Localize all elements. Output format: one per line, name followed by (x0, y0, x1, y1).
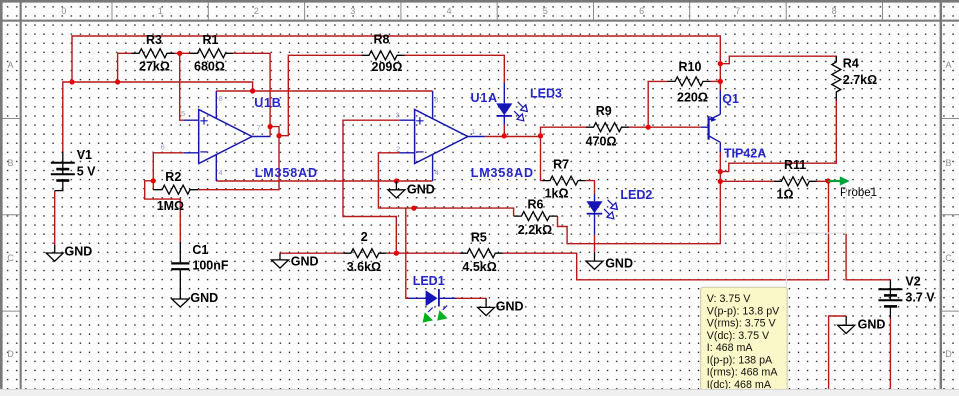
svg-text:I(p-p): 138 pA: I(p-p): 138 pA (707, 354, 773, 366)
svg-text:A: A (945, 60, 951, 70)
wire LED2 cathode to gnd (594, 234, 596, 252)
svg-text:6: 6 (161, 143, 165, 152)
svg-text:27kΩ: 27kΩ (139, 60, 170, 74)
svg-text:U1A: U1A (471, 91, 498, 105)
wire +5V top rail to Q1 emitter (72, 36, 720, 91)
svg-text:R1: R1 (203, 33, 219, 47)
svg-text:LED1: LED1 (413, 274, 445, 288)
svg-text:R10: R10 (679, 60, 702, 74)
svg-text:2: 2 (396, 145, 400, 154)
svg-text:8: 8 (434, 96, 438, 105)
svg-text:I(rms): 468 mA: I(rms): 468 mA (707, 367, 779, 379)
svg-text:GND: GND (605, 256, 633, 270)
svg-text:4: 4 (446, 6, 451, 16)
junction U1A output / R9 / R7 (538, 133, 543, 138)
junction +5V vertical / R10 (718, 79, 723, 84)
capacitor C1 100nF (171, 242, 189, 299)
wire U1A pin2 node (378, 153, 513, 216)
LED1 diode (409, 289, 456, 307)
transistor Q1 TIP42A (701, 90, 721, 152)
wire R4 bottom to collector node (720, 101, 836, 172)
svg-text:2: 2 (361, 230, 368, 244)
svg-text:B: B (7, 158, 13, 168)
wire R7 feed (541, 136, 543, 181)
wire collector node to R11 (720, 180, 774, 182)
wire R8 right to LED3 anode (405, 55, 505, 83)
svg-text:470Ω: 470Ω (586, 134, 617, 148)
wire R10 riser (648, 81, 667, 127)
wire LED1 anode drop (406, 208, 410, 298)
resistor R3 27kOhm body (132, 49, 175, 58)
resistor R6 2.2kOhm body (514, 212, 558, 221)
svg-text:GND: GND (291, 254, 319, 268)
svg-text:2: 2 (254, 6, 259, 16)
svg-text:R5: R5 (471, 231, 487, 245)
wire R6 staircase to Q1 collector node (558, 181, 721, 243)
resistor R9 470Ohm body (586, 123, 629, 132)
svg-text:R9: R9 (596, 104, 612, 118)
info-box leader line (786, 185, 846, 287)
wire 3.6k to R5 (386, 252, 460, 254)
svg-text:D: D (945, 349, 952, 359)
svg-text:3.6kΩ: 3.6kΩ (347, 260, 381, 274)
svg-text:4: 4 (219, 168, 223, 177)
svg-text:R6: R6 (528, 198, 544, 212)
svg-text:220Ω: 220Ω (677, 90, 708, 104)
svg-text:LM358AD: LM358AD (471, 166, 534, 180)
svg-text:4.5kΩ: 4.5kΩ (462, 260, 496, 274)
wire R9 feed from output node (541, 127, 587, 136)
svg-text:B: B (945, 158, 951, 168)
svg-text:D: D (7, 349, 14, 359)
wire U1B output node jog (270, 55, 361, 135)
svg-text:V: 3.75 V: V: 3.75 V (707, 293, 751, 305)
resistor R1 680Ohm body (190, 49, 233, 58)
svg-text:Q1: Q1 (722, 92, 739, 106)
wire R5 right wrap to probe node (503, 181, 829, 280)
wire gnd to 3.6k resistor (280, 252, 343, 254)
svg-text:C1: C1 (192, 243, 208, 257)
svg-text:2.7kΩ: 2.7kΩ (843, 73, 877, 87)
resistor R5 4.5kOhm body (460, 249, 503, 258)
ground symbol at LED1 (478, 298, 495, 315)
svg-text:LED2: LED2 (620, 188, 652, 202)
wire U1B pin5 from R3-R1 node (180, 53, 184, 120)
svg-text:A: A (7, 60, 13, 70)
ground symbol under C1 (172, 299, 189, 307)
junction +5V vertical / R4 feed (718, 61, 723, 66)
svg-text:1: 1 (472, 127, 476, 136)
svg-text:I: 468 mA: I: 468 mA (707, 342, 754, 354)
svg-text:U1B: U1B (254, 96, 281, 110)
ground symbol near V2 (838, 316, 855, 334)
LED2 diode (586, 194, 602, 235)
wire R11 right to probe node (817, 180, 829, 182)
battery V1 (51, 152, 75, 191)
wire V2 minus down (889, 318, 891, 389)
wire V1+ rail to op-amp power corner (63, 82, 253, 152)
junction U1B output / R1 (268, 124, 273, 129)
wire V2 plus feed (846, 234, 890, 281)
junction R9 / R10 / Q1 base (646, 125, 651, 130)
junction collector / R11 / R6 (718, 179, 723, 184)
junction at V1 rail / R3 tap (115, 79, 120, 84)
wire R4 top feed (720, 56, 836, 64)
svg-text:100nF: 100nF (192, 259, 228, 273)
svg-text:3.7 V: 3.7 V (905, 291, 935, 305)
wire op-amp power rail (216, 90, 432, 92)
LED1 light arrows (lit, green) (423, 306, 448, 323)
op-amp U1A LM358AD (400, 91, 485, 181)
svg-text:R2: R2 (165, 170, 181, 184)
svg-text:1Ω: 1Ω (777, 188, 794, 202)
svg-text:1kΩ: 1kΩ (545, 187, 569, 201)
junction 3.6k / R5 / pin3 node (394, 251, 399, 256)
svg-text:LM358AD: LM358AD (255, 166, 318, 180)
svg-text:V(rms): 3.75 V: V(rms): 3.75 V (707, 318, 777, 330)
ground symbol at op-amp rail (388, 181, 405, 198)
junction U1B output / R2 feedback (276, 133, 281, 138)
probe Probe1 arrow (828, 176, 850, 185)
LED3 light arrows (514, 102, 527, 121)
pin numbers U1A (396, 96, 476, 178)
svg-text:5: 5 (181, 109, 185, 118)
LED2 light arrows (604, 200, 617, 219)
svg-text:C: C (945, 253, 952, 263)
svg-text:R3: R3 (146, 33, 162, 47)
svg-text:R7: R7 (553, 158, 569, 172)
wire R2 left wrap to C1 top (145, 181, 181, 243)
ground symbol under V1 (46, 245, 63, 261)
svg-text:R11: R11 (784, 158, 806, 172)
ground symbol at 3.6k resistor (272, 253, 289, 268)
junction at V1 rail / top rail riser (69, 79, 74, 84)
resistor R7 1kOhm body (543, 176, 586, 185)
ground symbol at LED2 (586, 252, 603, 269)
svg-text:GND: GND (190, 291, 218, 305)
wire R3-R1 junction segment (175, 52, 191, 54)
wire R2 right feedback to U1B output (198, 136, 279, 190)
wire R1 right to U1B output node (233, 53, 270, 136)
svg-text:2.2kΩ: 2.2kΩ (518, 223, 552, 237)
svg-text:5 V: 5 V (77, 165, 96, 179)
svg-text:7: 7 (735, 6, 740, 16)
resistor 2 3.6kOhm body (343, 249, 386, 258)
svg-text:680Ω: 680Ω (194, 60, 225, 74)
svg-text:R4: R4 (843, 57, 859, 71)
resistor R4 2.7kOhm body (vertical) (832, 56, 841, 100)
svg-text:GND: GND (858, 317, 886, 331)
wire R10 right to +5V vertical (711, 80, 721, 82)
svg-text:1: 1 (158, 6, 163, 16)
wire gnd branch near V2 (829, 316, 847, 389)
wire V1 minus to gnd (54, 191, 56, 246)
svg-text:LED3: LED3 (530, 86, 562, 100)
svg-text:V2: V2 (905, 275, 920, 289)
wire R9 right to Q1 base (629, 126, 701, 128)
svg-text:7: 7 (257, 124, 261, 133)
pin numbers U1B (161, 94, 261, 177)
svg-text:V(p-p): 13.8 pV: V(p-p): 13.8 pV (707, 305, 780, 317)
svg-text:GND: GND (496, 300, 524, 314)
junction R2 left / C1 wrap (151, 178, 156, 183)
svg-text:4: 4 (435, 168, 439, 177)
svg-text:V1: V1 (77, 148, 92, 162)
wire R3 tap from +5V rail (118, 53, 132, 82)
wire op-amp gnd rail pin4 (216, 180, 432, 182)
svg-text:R8: R8 (374, 33, 390, 47)
junction R11 / probe / V2 (826, 178, 831, 183)
svg-text:0: 0 (61, 6, 66, 16)
probe info box (701, 287, 788, 390)
svg-text:GND: GND (65, 245, 93, 259)
resistor R11 1Ohm body (774, 177, 817, 186)
svg-text:5: 5 (543, 6, 548, 16)
svg-text:3: 3 (396, 111, 400, 120)
junction LED3 cathode / U1A output (502, 133, 507, 138)
svg-text:8: 8 (832, 6, 837, 16)
wire LED1 cathode to gnd (456, 297, 486, 299)
svg-text:GND: GND (407, 183, 435, 197)
junction R3-R1 / pin5 tap (177, 51, 182, 56)
resistor R10 220Ohm body (668, 77, 711, 86)
resistor R2 1MOhm body (153, 185, 198, 194)
battery V2 (878, 280, 902, 318)
junction collector / R4 return (718, 169, 723, 174)
op-amp U1B LM358AD (184, 91, 271, 181)
svg-text:V(dc): 3.75 V: V(dc): 3.75 V (707, 330, 770, 342)
junction gnd rail tap (394, 178, 399, 183)
wire LED3 cathode (503, 124, 505, 136)
wire R7 to LED2 anode (586, 181, 595, 194)
junction pin2 node (411, 206, 416, 211)
LED3 diode (496, 83, 512, 125)
svg-text:6: 6 (639, 6, 644, 16)
wire U1A pin3 to 3.6k node (343, 120, 400, 253)
svg-text:1MΩ: 1MΩ (157, 199, 184, 213)
wire U1B pin6 to R2 left (153, 153, 183, 190)
junction power rail corner (250, 88, 255, 93)
svg-text:C: C (7, 253, 14, 263)
wire U1A output (485, 136, 541, 138)
svg-text:8: 8 (219, 94, 223, 103)
svg-text:3: 3 (350, 6, 355, 16)
svg-text:209Ω: 209Ω (372, 60, 403, 74)
wire Q1 collector (719, 152, 721, 182)
resistor R8 209Ohm body (362, 51, 405, 60)
svg-text:TIP42A: TIP42A (724, 147, 766, 161)
